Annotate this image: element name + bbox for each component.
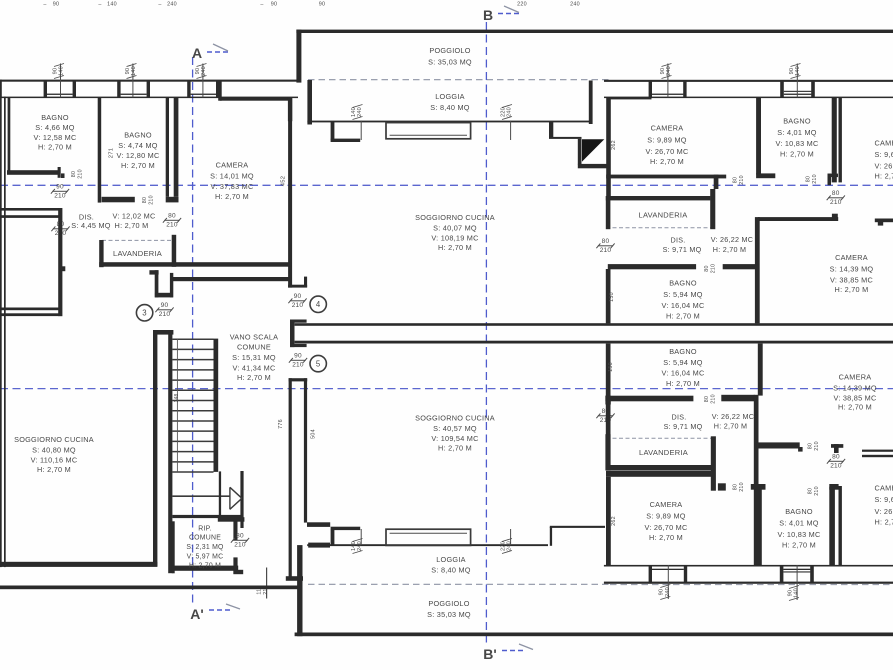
- lavanderia br walls: [605, 434, 725, 490]
- dim 110/210 rotated: [257, 585, 270, 595]
- svg-text:POGGIOLO: POGGIOLO: [428, 599, 469, 608]
- svg-text:H: 2,70 M: H: 2,70 M: [875, 172, 893, 181]
- section A vertical dashed: [192, 57, 194, 604]
- svg-text:POGGIOLO: POGGIOLO: [429, 46, 470, 55]
- entrance triangle: [582, 139, 604, 161]
- section B vertical dashed: [485, 22, 487, 643]
- svg-text:RIP.: RIP.: [198, 526, 212, 533]
- loggia window box bottom: [386, 529, 471, 545]
- window dim 90/140 b: [125, 64, 137, 79]
- svg-text:V: 16,04 MC: V: 16,04 MC: [661, 301, 704, 310]
- top exterior wall with windows (left unit): [0, 64, 298, 99]
- dim 80/210 rot bagno401 bottom: [808, 486, 821, 496]
- bagno594 left wall top: [606, 269, 611, 323]
- rip walls: [172, 521, 243, 574]
- svg-text:210: 210: [814, 486, 820, 496]
- camera1401 right wall: [288, 97, 307, 287]
- svg-text:V: 26,22 MC: V: 26,22 MC: [712, 412, 754, 421]
- svg-text:140: 140: [795, 66, 801, 76]
- bagno1/bagno2 wall: [98, 97, 102, 202]
- dim 262 rotated bottom: [611, 516, 617, 526]
- svg-text:H: 2,70 M: H: 2,70 M: [875, 518, 893, 527]
- bagno2 text: [116, 131, 159, 171]
- svg-text:DIS.: DIS.: [672, 413, 687, 422]
- svg-text:CAMERA: CAMERA: [875, 139, 893, 148]
- svg-text:BAGNO: BAGNO: [669, 279, 697, 288]
- svg-text:CAMERA: CAMERA: [651, 124, 684, 133]
- svg-text:452: 452: [281, 176, 287, 186]
- dim 262 rotated top: [611, 140, 617, 150]
- svg-text:210: 210: [739, 175, 745, 185]
- svg-text:–: –: [43, 2, 46, 8]
- svg-text:DIS.: DIS.: [79, 213, 94, 222]
- svg-text:V: 5,97 MC: V: 5,97 MC: [187, 554, 224, 561]
- svg-text:S: 5,94 MQ: S: 5,94 MQ: [663, 290, 702, 299]
- bagno594 bottom left wall: [606, 344, 611, 396]
- svg-text:271: 271: [109, 148, 115, 158]
- svg-text:H: 2,70 M: H: 2,70 M: [37, 465, 71, 474]
- svg-text:210: 210: [739, 482, 745, 492]
- bagno2 right wall: [166, 97, 169, 197]
- svg-text:S: 4,45 MQ: S: 4,45 MQ: [71, 221, 110, 230]
- svg-text:V: 26,22 MC: V: 26,22 MC: [711, 235, 753, 244]
- svg-text:S: 40,07 MQ: S: 40,07 MQ: [433, 224, 477, 233]
- svg-text:80: 80: [704, 265, 710, 271]
- dim 271 rotated: [109, 148, 115, 158]
- poggiolo top wall: [296, 30, 893, 83]
- dim 90/210 below: [51, 184, 69, 200]
- svg-text:240: 240: [201, 66, 207, 76]
- svg-text:BAGNO: BAGNO: [124, 131, 152, 140]
- svg-text:140: 140: [107, 2, 117, 8]
- loggia b window dim 140/240: [351, 529, 363, 554]
- corridor wall right top: [758, 214, 893, 226]
- central corridor double wall: [290, 320, 893, 348]
- loggia b window dim 220/240: [500, 529, 512, 554]
- window dim 90/140 g: [787, 586, 799, 601]
- svg-text:S: 8,40 MQ: S: 8,40 MQ: [431, 566, 470, 575]
- svg-text:SOGGIORNO CUCINA: SOGGIORNO CUCINA: [415, 213, 495, 222]
- dim 150 rotated top: [609, 292, 615, 302]
- svg-text:80: 80: [733, 484, 739, 490]
- svg-text:210: 210: [830, 462, 842, 469]
- section label B2: [483, 644, 533, 662]
- svg-text:V: 12,02 MC: V: 12,02 MC: [112, 212, 155, 221]
- svg-text:V: 38,85 MC: V: 38,85 MC: [833, 394, 876, 403]
- svg-text:H: 2,70 M: H: 2,70 M: [121, 161, 155, 170]
- dim 90/210 door4: [288, 293, 306, 309]
- svg-text:240: 240: [570, 2, 580, 8]
- svg-text:BAGNO: BAGNO: [785, 507, 813, 516]
- svg-text:S: 40,80 MQ: S: 40,80 MQ: [32, 446, 76, 455]
- stair updown label: [174, 393, 180, 402]
- dis br text: [664, 412, 755, 431]
- svg-text:262: 262: [611, 140, 617, 150]
- svg-text:H: 2,70 M: H: 2,70 M: [666, 311, 700, 320]
- svg-text:V: 38,85 MC: V: 38,85 MC: [830, 276, 873, 285]
- soggiorno jog upper: [549, 121, 609, 168]
- svg-text:90: 90: [125, 68, 131, 75]
- svg-text:210: 210: [159, 311, 171, 318]
- svg-text:3: 3: [142, 309, 147, 318]
- svg-text:240: 240: [665, 587, 671, 597]
- svg-text:V: 26,70 MC: V: 26,70 MC: [644, 523, 687, 532]
- bagno401 top door wall: [756, 173, 838, 185]
- svg-text:H: 2,70 M: H: 2,70 M: [780, 150, 814, 159]
- svg-text:90: 90: [52, 68, 58, 75]
- soggiorno40_80 door tick: [62, 266, 65, 271]
- svg-text:80: 80: [806, 176, 812, 182]
- niche walls: [149, 270, 173, 297]
- camera1401 top wall: [218, 81, 290, 101]
- svg-text:240: 240: [357, 541, 363, 551]
- svg-text:H: 2,70 M: H: 2,70 M: [237, 373, 271, 382]
- svg-text:A: A: [192, 45, 202, 61]
- vano scala text: [230, 333, 279, 382]
- window dim 90/240 f: [659, 585, 671, 600]
- svg-text:140: 140: [351, 541, 357, 551]
- svg-text:S: 14,39 MQ: S: 14,39 MQ: [830, 265, 874, 274]
- wall B corridor: [173, 277, 292, 281]
- camera989/bagno401 wall bottom: [756, 487, 762, 566]
- stair walk line: [176, 339, 178, 472]
- svg-text:S: 5,94 MQ: S: 5,94 MQ: [663, 358, 702, 367]
- window dim 90/240 d: [660, 64, 672, 79]
- svg-text:LAVANDERIA: LAVANDERIA: [639, 448, 688, 457]
- top exterior wall with windows (right): [604, 64, 893, 99]
- svg-text:H: 2,70 M: H: 2,70 M: [649, 533, 683, 542]
- dim 80/210 rot bagno594 top: [704, 264, 717, 274]
- section label A: [192, 44, 230, 61]
- cameraR bottom left wall: [839, 486, 842, 565]
- camera989/bagno401 wall top: [756, 97, 761, 174]
- svg-text:VANO SCALA: VANO SCALA: [230, 333, 279, 342]
- shaft wall: [174, 97, 179, 197]
- cameraR bottom text: [875, 484, 893, 527]
- dim 504 rotated: [311, 429, 317, 439]
- svg-text:V: 110,16 MC: V: 110,16 MC: [31, 456, 78, 465]
- svg-text:BAGNO: BAGNO: [783, 117, 811, 126]
- camera989 top text: [645, 124, 688, 167]
- svg-text:90: 90: [53, 2, 60, 8]
- door dim 80/210 bagno1: [71, 169, 84, 179]
- camera1439 top text: [830, 253, 874, 294]
- svg-text:80: 80: [808, 443, 814, 449]
- camera989 top unit left wall: [606, 98, 651, 197]
- svg-text:80: 80: [602, 238, 610, 245]
- svg-text:210: 210: [78, 169, 84, 179]
- dim 452 rotated: [281, 176, 287, 186]
- svg-text:210: 210: [149, 195, 155, 205]
- svg-text:COMUNE: COMUNE: [189, 535, 221, 542]
- svg-text:V: 10,83 MC: V: 10,83 MC: [777, 530, 820, 539]
- corridor wall right bottom: [756, 442, 893, 457]
- svg-text:H: 2,70 M: H: 2,70 M: [115, 221, 149, 230]
- camera1401 text: [210, 161, 254, 202]
- bagno1 walls: [7, 98, 65, 178]
- poggiolo/loggia divider dashed top: [308, 79, 610, 81]
- svg-text:90: 90: [161, 302, 169, 309]
- soggiorno40_07 text: [415, 213, 495, 252]
- svg-text:H: 2,70 M: H: 2,70 M: [215, 192, 249, 201]
- svg-text:240: 240: [666, 66, 672, 76]
- svg-text:80: 80: [733, 177, 739, 183]
- svg-text:V: 16,04 MC: V: 16,04 MC: [661, 369, 704, 378]
- svg-text:V: 12,80 MC: V: 12,80 MC: [116, 151, 159, 160]
- svg-text:220: 220: [500, 107, 506, 117]
- cameraR top left wall: [839, 97, 842, 182]
- svg-text:V: 26,70 MC: V: 26,70 MC: [645, 147, 688, 156]
- section label B: [483, 6, 521, 23]
- dim 80/210 dis: [163, 213, 181, 229]
- bagno594 bottom text: [661, 347, 704, 388]
- svg-text:A': A': [190, 606, 203, 622]
- door circle 4: [310, 296, 326, 312]
- svg-text:S: 9,71 MQ: S: 9,71 MQ: [664, 422, 703, 431]
- svg-text:90: 90: [319, 2, 326, 8]
- svg-text:S: 8,40 MQ: S: 8,40 MQ: [430, 103, 469, 112]
- svg-text:210: 210: [830, 199, 842, 206]
- svg-text:504: 504: [311, 429, 317, 439]
- lavanderia tr dashed: [606, 227, 715, 229]
- long wall bottom: [754, 344, 763, 566]
- camera989 bottom text: [644, 500, 687, 542]
- soggiorno40_80 bottom wall: [0, 562, 157, 567]
- svg-text:–: –: [98, 2, 101, 8]
- dis wall double upper: [0, 208, 61, 218]
- svg-text:776: 776: [278, 419, 284, 429]
- dim 80/210 frac dis br: [596, 408, 614, 424]
- bagno401 bottom text: [777, 507, 820, 550]
- loggia bottom text: [431, 555, 470, 575]
- svg-text:140: 140: [131, 66, 137, 76]
- lavanderia left walls: [99, 235, 291, 267]
- svg-text:LOGGIA: LOGGIA: [435, 92, 464, 101]
- dim 80/210 rip: [231, 533, 249, 549]
- svg-text:H: 2,70 M: H: 2,70 M: [666, 379, 700, 388]
- svg-text:90: 90: [195, 68, 201, 75]
- svg-text:V: 109,54 MC: V: 109,54 MC: [431, 434, 478, 443]
- svg-text:80: 80: [808, 488, 814, 494]
- svg-text:220: 220: [500, 541, 506, 551]
- dim 80/210 rot lav br: [733, 482, 746, 492]
- svg-text:H: 2,70 M: H: 2,70 M: [438, 243, 472, 252]
- svg-text:H: 2,70 M: H: 2,70 M: [38, 142, 72, 151]
- svg-text:S: 4,66 MQ: S: 4,66 MQ: [35, 123, 74, 132]
- svg-text:240: 240: [507, 107, 513, 117]
- svg-text:V: 12,58 MC: V: 12,58 MC: [33, 133, 76, 142]
- svg-text:148: 148: [174, 393, 180, 402]
- svg-text:S: 15,31 MQ: S: 15,31 MQ: [232, 353, 276, 362]
- dim 80/210 rot corridor bottom: [808, 441, 821, 451]
- svg-text:CAMERA: CAMERA: [650, 500, 683, 509]
- bagno594 top text: [661, 279, 704, 321]
- svg-text:90: 90: [787, 590, 793, 597]
- dim 80/210 frac right bottom: [827, 454, 845, 470]
- svg-text:V: 108,19 MC: V: 108,19 MC: [431, 234, 478, 243]
- svg-text:240: 240: [507, 541, 513, 551]
- dim 90/210 door5: [289, 353, 307, 369]
- svg-text:CAMERA: CAMERA: [216, 161, 249, 170]
- poggiolo bottom wall: [295, 633, 893, 637]
- svg-text:CAMERA: CAMERA: [875, 484, 893, 493]
- svg-text:–: –: [158, 2, 161, 8]
- lavanderia tr text: [639, 211, 688, 220]
- dis tr text: [663, 235, 754, 254]
- stairs: [153, 330, 244, 573]
- svg-text:H: 2,70 M: H: 2,70 M: [835, 285, 869, 294]
- svg-text:S: 9,89 MQ: S: 9,89 MQ: [647, 136, 686, 145]
- dim 150 rotated bottom: [608, 362, 614, 372]
- svg-text:140: 140: [794, 588, 800, 598]
- window dim 90/240 c: [195, 64, 207, 79]
- camera989 top bottom wall: [606, 175, 726, 189]
- svg-text:B': B': [483, 646, 496, 662]
- svg-text:210: 210: [234, 541, 246, 548]
- window dim 90/140 a: [52, 64, 64, 79]
- svg-text:S: 4,01 MQ: S: 4,01 MQ: [777, 128, 816, 137]
- svg-text:240: 240: [167, 2, 177, 8]
- svg-text:S: 35,03 MQ: S: 35,03 MQ: [428, 58, 472, 67]
- svg-text:140: 140: [59, 66, 65, 76]
- door circle 5: [310, 355, 326, 371]
- svg-text:210: 210: [292, 361, 304, 368]
- svg-text:150: 150: [608, 362, 614, 372]
- svg-text:H: 2,70 M: H: 2,70 M: [713, 245, 746, 254]
- svg-text:150: 150: [609, 292, 615, 302]
- section label A2: [190, 604, 240, 622]
- svg-text:H: 2,70 M: H: 2,70 M: [438, 444, 472, 453]
- svg-text:S: 40,57 MQ: S: 40,57 MQ: [433, 424, 477, 433]
- svg-text:80: 80: [704, 396, 710, 402]
- svg-text:90: 90: [659, 589, 665, 596]
- svg-text:CAMERA: CAMERA: [839, 373, 872, 382]
- svg-text:V: 10,83 MC: V: 10,83 MC: [775, 139, 818, 148]
- svg-text:B: B: [483, 7, 493, 23]
- door circle 3: [136, 305, 152, 321]
- bagno594 bottom wall: [605, 395, 754, 405]
- svg-text:LAVANDERIA: LAVANDERIA: [639, 211, 688, 220]
- loggia right wall: [589, 81, 593, 125]
- lavanderia left text: [113, 249, 162, 258]
- svg-text:80: 80: [168, 213, 176, 220]
- lavanderia left dashed: [102, 239, 176, 241]
- svg-text:80: 80: [832, 454, 840, 461]
- camera989 bottom walls: [606, 471, 712, 566]
- dim 90/210 door3: [155, 302, 173, 318]
- cameraR top text: [875, 139, 893, 181]
- bottom exterior wall with windows (right): [604, 565, 893, 600]
- dim 80/210 frac dis tr: [596, 238, 614, 254]
- svg-text:210: 210: [166, 221, 178, 228]
- svg-text:210: 210: [600, 247, 612, 254]
- svg-text:80: 80: [142, 197, 148, 203]
- svg-text:80: 80: [71, 171, 77, 177]
- svg-text:210: 210: [814, 441, 820, 451]
- dim 776 rotated: [278, 419, 284, 429]
- svg-text:V: 26,08 MC: V: 26,08 MC: [875, 507, 893, 516]
- svg-text:S: 9,71 MQ: S: 9,71 MQ: [663, 245, 702, 254]
- svg-text:LOGGIA: LOGGIA: [436, 555, 465, 564]
- bagno1 text: [33, 113, 76, 151]
- svg-text:S: 4,01 MQ: S: 4,01 MQ: [779, 519, 818, 528]
- svg-text:V: 26,08 MC: V: 26,08 MC: [875, 162, 893, 171]
- camera1439 bottom text: [833, 373, 877, 412]
- svg-text:COMUNE: COMUNE: [237, 343, 271, 352]
- poggiolo top text: [428, 46, 472, 67]
- svg-text:90: 90: [271, 2, 278, 8]
- lavanderia br text: [639, 448, 688, 457]
- svg-text:H: 2,70 M: H: 2,70 M: [838, 403, 872, 412]
- svg-text:DIS.: DIS.: [671, 236, 686, 245]
- dis text: [71, 212, 155, 231]
- loggia bottom line and step: [297, 526, 605, 636]
- svg-text:BAGNO: BAGNO: [41, 113, 69, 122]
- svg-text:262: 262: [611, 516, 617, 526]
- svg-text:90: 90: [294, 293, 302, 300]
- lavanderia br dashed: [606, 437, 716, 439]
- svg-text:S: 4,74 MQ: S: 4,74 MQ: [118, 141, 157, 150]
- svg-text:S: 14,39 MQ: S: 14,39 MQ: [833, 384, 877, 393]
- svg-text:H: 2,70 M: H: 2,70 M: [650, 157, 684, 166]
- section line blue dashed horizontal upper: [0, 184, 893, 186]
- svg-text:S: 2,31 MQ: S: 2,31 MQ: [186, 544, 224, 551]
- door dim 80/210 bagno2: [142, 195, 155, 205]
- loggia window dim 220/240: [500, 105, 512, 141]
- svg-text:220: 220: [517, 2, 527, 8]
- dim 80/210 left: [51, 221, 69, 237]
- svg-text:H: 2,70 M: H: 2,70 M: [189, 563, 221, 570]
- bagno2 door wall: [102, 197, 179, 203]
- rip text: [186, 526, 224, 570]
- svg-text:S: 9,66 MQ: S: 9,66 MQ: [875, 150, 893, 159]
- svg-text:–: –: [260, 2, 263, 8]
- dim 80/210 rot bagno401 top: [806, 174, 819, 184]
- svg-text:CAMERA: CAMERA: [835, 253, 868, 262]
- svg-text:240: 240: [357, 107, 363, 117]
- svg-text:140: 140: [351, 107, 357, 117]
- loggia window box top: [386, 123, 471, 139]
- bottom exterior wall left: [0, 586, 298, 590]
- svg-text:H: 2,70 M: H: 2,70 M: [714, 422, 747, 431]
- svg-text:90: 90: [789, 68, 795, 75]
- loggia left wall and step: [307, 80, 592, 142]
- camera/dis long wall top: [755, 217, 760, 323]
- svg-text:5: 5: [316, 359, 321, 368]
- bagno401 bottom right wall: [829, 484, 838, 565]
- svg-text:210: 210: [54, 192, 66, 199]
- svg-text:H: 2,70 M: H: 2,70 M: [782, 541, 816, 550]
- svg-text:90: 90: [294, 353, 302, 360]
- loggia window dim 140/240: [351, 105, 363, 141]
- soggiorno40_57 text: [415, 414, 495, 453]
- svg-text:V: 41,34 MC: V: 41,34 MC: [232, 363, 275, 372]
- svg-text:80: 80: [832, 190, 840, 197]
- svg-text:80: 80: [236, 533, 244, 540]
- svg-text:SOGGIORNO CUCINA: SOGGIORNO CUCINA: [14, 435, 94, 444]
- rip door tick: [266, 568, 268, 599]
- loggia top text: [430, 92, 469, 112]
- svg-text:SOGGIORNO CUCINA: SOGGIORNO CUCINA: [415, 414, 495, 423]
- svg-text:S: 9,89 MQ: S: 9,89 MQ: [646, 512, 685, 521]
- svg-text:S: 35,03 MQ: S: 35,03 MQ: [427, 610, 471, 619]
- soggiorno40_07 left wall: [288, 97, 292, 121]
- svg-text:BAGNO: BAGNO: [669, 347, 697, 356]
- svg-text:90: 90: [56, 184, 64, 191]
- svg-text:S: 14,01 MQ: S: 14,01 MQ: [210, 172, 254, 181]
- svg-text:S: 9,66 MQ: S: 9,66 MQ: [875, 495, 893, 504]
- bagno401 top text: [775, 117, 818, 159]
